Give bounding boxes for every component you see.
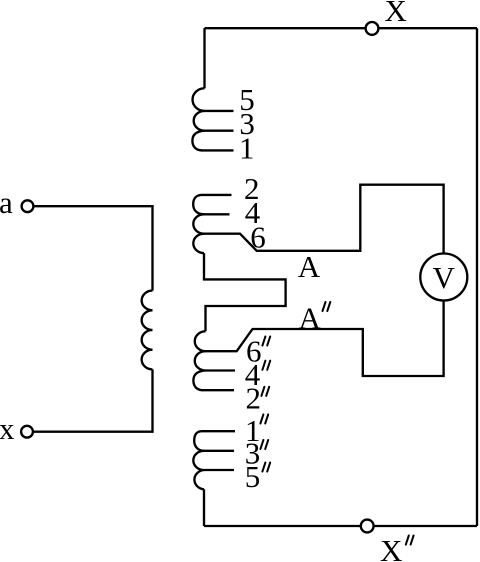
svg-text:2: 2	[246, 380, 262, 415]
svg-text:1: 1	[239, 130, 255, 165]
terminal x	[21, 426, 33, 438]
inductor W3 loop c	[193, 371, 205, 391]
wire: tap 1''	[202, 430, 235, 432]
wire: bottom line to terminal X2	[204, 525, 477, 527]
inductor W1 loop c	[192, 131, 204, 151]
inductor W4 loop b	[193, 451, 204, 470]
terminal a	[22, 200, 34, 212]
terminal X	[366, 22, 379, 35]
svg-text:X: X	[385, 0, 407, 28]
inductor P loop 1	[142, 291, 153, 311]
wire: top line to terminal X	[205, 27, 478, 29]
wire: center step between W2 and W3	[204, 253, 286, 331]
inductor W2 loop b	[193, 214, 204, 233]
svg-text:6: 6	[250, 220, 265, 255]
wire: tap 2''	[202, 389, 234, 391]
inductor P loop 3	[142, 330, 153, 350]
inductor W1 loop a	[193, 88, 205, 111]
wire: left vertical from top line into coil W1	[203, 28, 205, 88]
inductor W2 loop c	[193, 234, 204, 253]
wire: tap 5''	[204, 469, 234, 471]
wire: tap 1	[201, 149, 234, 151]
inductor W3 loop a	[195, 331, 206, 351]
svg-text:5: 5	[245, 459, 260, 494]
svg-text:A: A	[299, 301, 322, 336]
inductor P loop 2	[142, 310, 153, 330]
svg-text:A: A	[298, 249, 321, 284]
wire: tap 6 to node A and to voltmeter top	[204, 185, 444, 254]
wire: right vertical side	[476, 28, 478, 526]
voltmeter V	[420, 254, 467, 301]
wire: tap 2	[202, 194, 232, 196]
inductor W4 loop c	[194, 470, 204, 489]
terminal X''	[361, 520, 374, 533]
inductor P loop 4	[142, 350, 153, 370]
wire: tap 5	[205, 110, 234, 112]
svg-text:x: x	[0, 411, 15, 446]
wire: tap 6'' to node A'' and to voltmeter bottom	[206, 301, 444, 376]
wire: tap 3''	[204, 450, 234, 452]
wire: left vertical from coil W4 to bottom line	[203, 489, 205, 526]
svg-text:V: V	[433, 260, 456, 295]
svg-text:a: a	[0, 185, 13, 220]
inductor W1 loop b	[194, 111, 205, 131]
wire: from primary coil to terminal x	[33, 369, 153, 431]
svg-text:X: X	[380, 533, 402, 562]
inductor W4 loop a	[194, 431, 204, 451]
inductor W3 loop b	[195, 351, 206, 370]
wire: tap 3	[205, 130, 234, 132]
inductor W2 loop a	[193, 195, 204, 214]
wire: from terminal a to primary coil	[33, 206, 152, 290]
wire: tap 4''	[206, 369, 236, 371]
wire: tap 4	[204, 213, 230, 215]
